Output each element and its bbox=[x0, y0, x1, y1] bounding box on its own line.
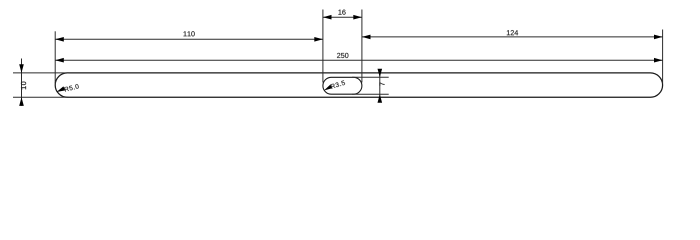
dimension 250 arrow left bbox=[55, 58, 64, 63]
extension lines for 7 (slot height) bbox=[352, 77, 389, 94]
dimension 250 arrow right bbox=[654, 58, 663, 63]
dimension 110 arrow left bbox=[55, 37, 64, 42]
dimension 7 arrow bottom (points up) bbox=[378, 94, 383, 103]
extension lines for 10 (bar height, left) bbox=[13, 73, 69, 97]
dimension 16 arrow right bbox=[353, 15, 362, 20]
dimension 110 line bbox=[55, 38, 323, 40]
extension line slot-right (x=361.9) bbox=[361, 10, 363, 83]
dimension 16 line bbox=[323, 16, 362, 18]
dimension 124 label bbox=[507, 30, 518, 35]
dimension 124 line bbox=[362, 36, 663, 38]
dimension 7 arrow top (points down) bbox=[378, 69, 383, 78]
radius label R5.0 bbox=[64, 84, 79, 92]
dimension 124 arrow left bbox=[362, 35, 371, 40]
dimension 10 label (rotated) bbox=[21, 82, 26, 90]
dimension 10 line (vertical, left) bbox=[21, 59, 23, 106]
radius label R3.5 bbox=[330, 80, 345, 89]
dimension 10 arrow top (points down) bbox=[19, 64, 24, 73]
dimension 110 arrow right bbox=[314, 37, 323, 42]
dimension 16 label bbox=[338, 10, 345, 15]
slot outline (16 x 7, stadium, R3.5) bbox=[323, 77, 362, 94]
dimension 10 arrow bottom (points up) bbox=[19, 97, 24, 106]
dimension 250 line bbox=[55, 59, 662, 61]
extension line slot-left (x=322.9) bbox=[322, 10, 324, 83]
radius leader arrow R5.0 bbox=[57, 86, 66, 92]
dimension 7 label (rotated) bbox=[380, 82, 385, 85]
dimension 16 arrow left bbox=[323, 15, 332, 20]
dimension 7 line (vertical, slot) bbox=[379, 70, 381, 102]
extension line left (x=55.2) bbox=[54, 31, 56, 83]
radius leader arrow R3.5 bbox=[324, 85, 332, 91]
bar outline (250 x 10, stadium) bbox=[55, 73, 662, 97]
dimension 250 label bbox=[337, 53, 348, 58]
dimension 110 label bbox=[184, 31, 195, 36]
dimension 124 arrow right bbox=[654, 35, 663, 40]
extension line right (x=662.6) bbox=[662, 30, 664, 84]
